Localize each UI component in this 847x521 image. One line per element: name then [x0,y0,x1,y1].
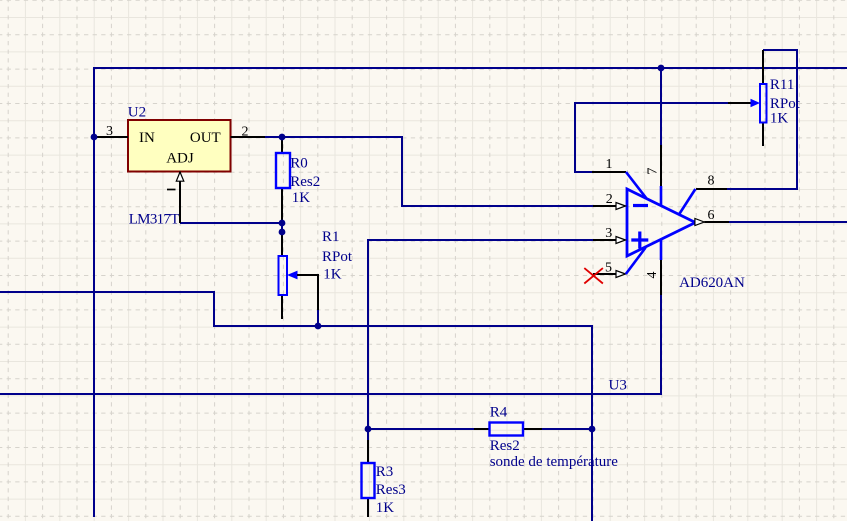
resistor R4 [474,428,542,430]
potentiometer R1 [281,232,283,319]
op-amp pin 6 (output) [695,219,704,226]
U2 pin 1 (ADJ) [179,172,181,223]
svg-text:Res3: Res3 [376,482,406,498]
non-inverting input marker [631,232,648,249]
wire: U2 OUT net stepping down to op-amp pin 2 [265,137,593,206]
wire: lower rail to op-amp pin 4 [0,295,661,394]
wire: op-amp pin 1 up and over to R11 wiper [575,103,728,172]
svg-text:1K: 1K [376,500,395,516]
junction dot at R1 top node [279,229,286,236]
svg-text:RPot: RPot [770,96,801,112]
svg-text:R1: R1 [322,229,340,245]
svg-text:U3: U3 [609,378,627,394]
svg-text:6: 6 [708,208,715,223]
svg-text:OUT: OUT [190,130,221,146]
potentiometer R11 [762,50,764,146]
junction dot at U2 pin3 / left rail [91,134,98,141]
svg-text:R4: R4 [490,405,508,421]
svg-text:2: 2 [242,124,249,139]
op-amp U3 AD620AN triangle [627,189,695,256]
svg-text:1: 1 [606,157,613,172]
svg-text:3: 3 [106,124,113,139]
junction dot at R3/R4 left node [365,426,372,433]
svg-text:8: 8 [708,174,715,189]
inverting input marker [633,204,648,207]
op-amp pin 4 [660,260,662,295]
wire: segment between junctions above R1 [281,223,283,232]
wire: top rail and left vertical rail [94,68,847,517]
wire: mid rail with step and drop to bottom [0,292,592,521]
U2 pin 2 (OUT) [231,136,266,138]
resistor R0 [281,137,283,223]
regulator U2 LM317T body [128,120,231,172]
op-amp pin 5 [593,273,616,275]
junction dot at R1 wiper / bottom rail [315,323,322,330]
svg-text:1K: 1K [323,267,342,283]
wire: R1 wiper drop to bottom rail [317,310,319,326]
svg-text:ADJ: ADJ [166,151,194,167]
svg-text:R3: R3 [376,464,394,480]
resistor R3 [367,440,369,517]
svg-text:5: 5 [605,261,612,276]
junction dot at top rail / pin7 drop [658,65,665,72]
op-amp pin 7 [660,145,662,186]
junction dot at ADJ/R0 node [279,220,286,227]
wire: R3/R4 node up and over to op-amp pin 3 [368,240,593,440]
wire: op-amp pin 8 to R11 top loop [727,50,797,189]
op-amp pin 3 [593,239,616,241]
op-amp pin 8 [696,188,727,190]
op-amp pin 1 [592,171,626,173]
junction dot at R4 right node [589,426,596,433]
svg-text:1K: 1K [292,190,311,206]
svg-text:R0: R0 [290,156,308,172]
svg-text:RPot: RPot [322,249,353,265]
op-amp pin 2 [593,205,616,207]
svg-text:U2: U2 [128,105,146,121]
svg-text:3: 3 [605,226,612,241]
svg-text:R11: R11 [770,77,794,93]
svg-text:AD620AN: AD620AN [679,275,745,291]
svg-text:1K: 1K [770,111,789,127]
wire: op-amp output net [729,221,847,223]
svg-text:7: 7 [646,168,661,175]
wire: R4 left net [368,428,474,430]
svg-text:4: 4 [645,272,660,279]
wire: R4 right net [542,428,592,430]
svg-text:Res2: Res2 [490,438,520,454]
wire: pin 7 drop from top rail [660,68,662,145]
junction dot at R0 top node [279,134,286,141]
svg-text:sonde de température: sonde de température [490,454,619,470]
svg-text:LM317T: LM317T [129,212,180,228]
wire: LM317 ADJ feedback to R0/R1 node [180,222,282,224]
svg-text:2: 2 [606,192,613,207]
U2 pin 3 (IN) [94,136,128,138]
svg-text:Res2: Res2 [290,174,320,190]
no-ERC marker on pin 5 [584,268,603,283]
svg-text:IN: IN [139,130,155,146]
